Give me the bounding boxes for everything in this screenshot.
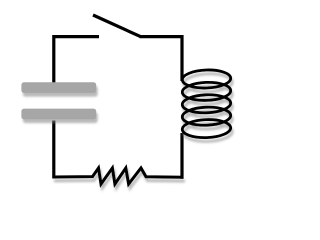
inductor L1 coil loop 1 xyxy=(182,69,231,89)
wire: top-right horizontal + right vertical down to coil top xyxy=(140,37,183,81)
wire: left vertical + top-left horizontal (switch left lead) xyxy=(54,37,99,84)
resistor R1 zigzag with bottom wire xyxy=(53,168,184,184)
capacitor C1 bottom plate xyxy=(21,109,96,120)
inductor L1 coil loop 5 xyxy=(182,119,231,139)
wire: right vertical from coil bottom down to bottom-right corner xyxy=(180,133,183,179)
capacitor C1 top plate xyxy=(21,82,96,93)
wire: left vertical from bottom capacitor plate down to bottom-left corner xyxy=(52,121,55,179)
inductor L1 coil loop 4 xyxy=(182,106,231,126)
inductor L1 coil loop 3 xyxy=(182,94,231,114)
switch SW1 blade (open) xyxy=(93,15,141,37)
inductor L1 coil loop 2 xyxy=(182,82,231,102)
